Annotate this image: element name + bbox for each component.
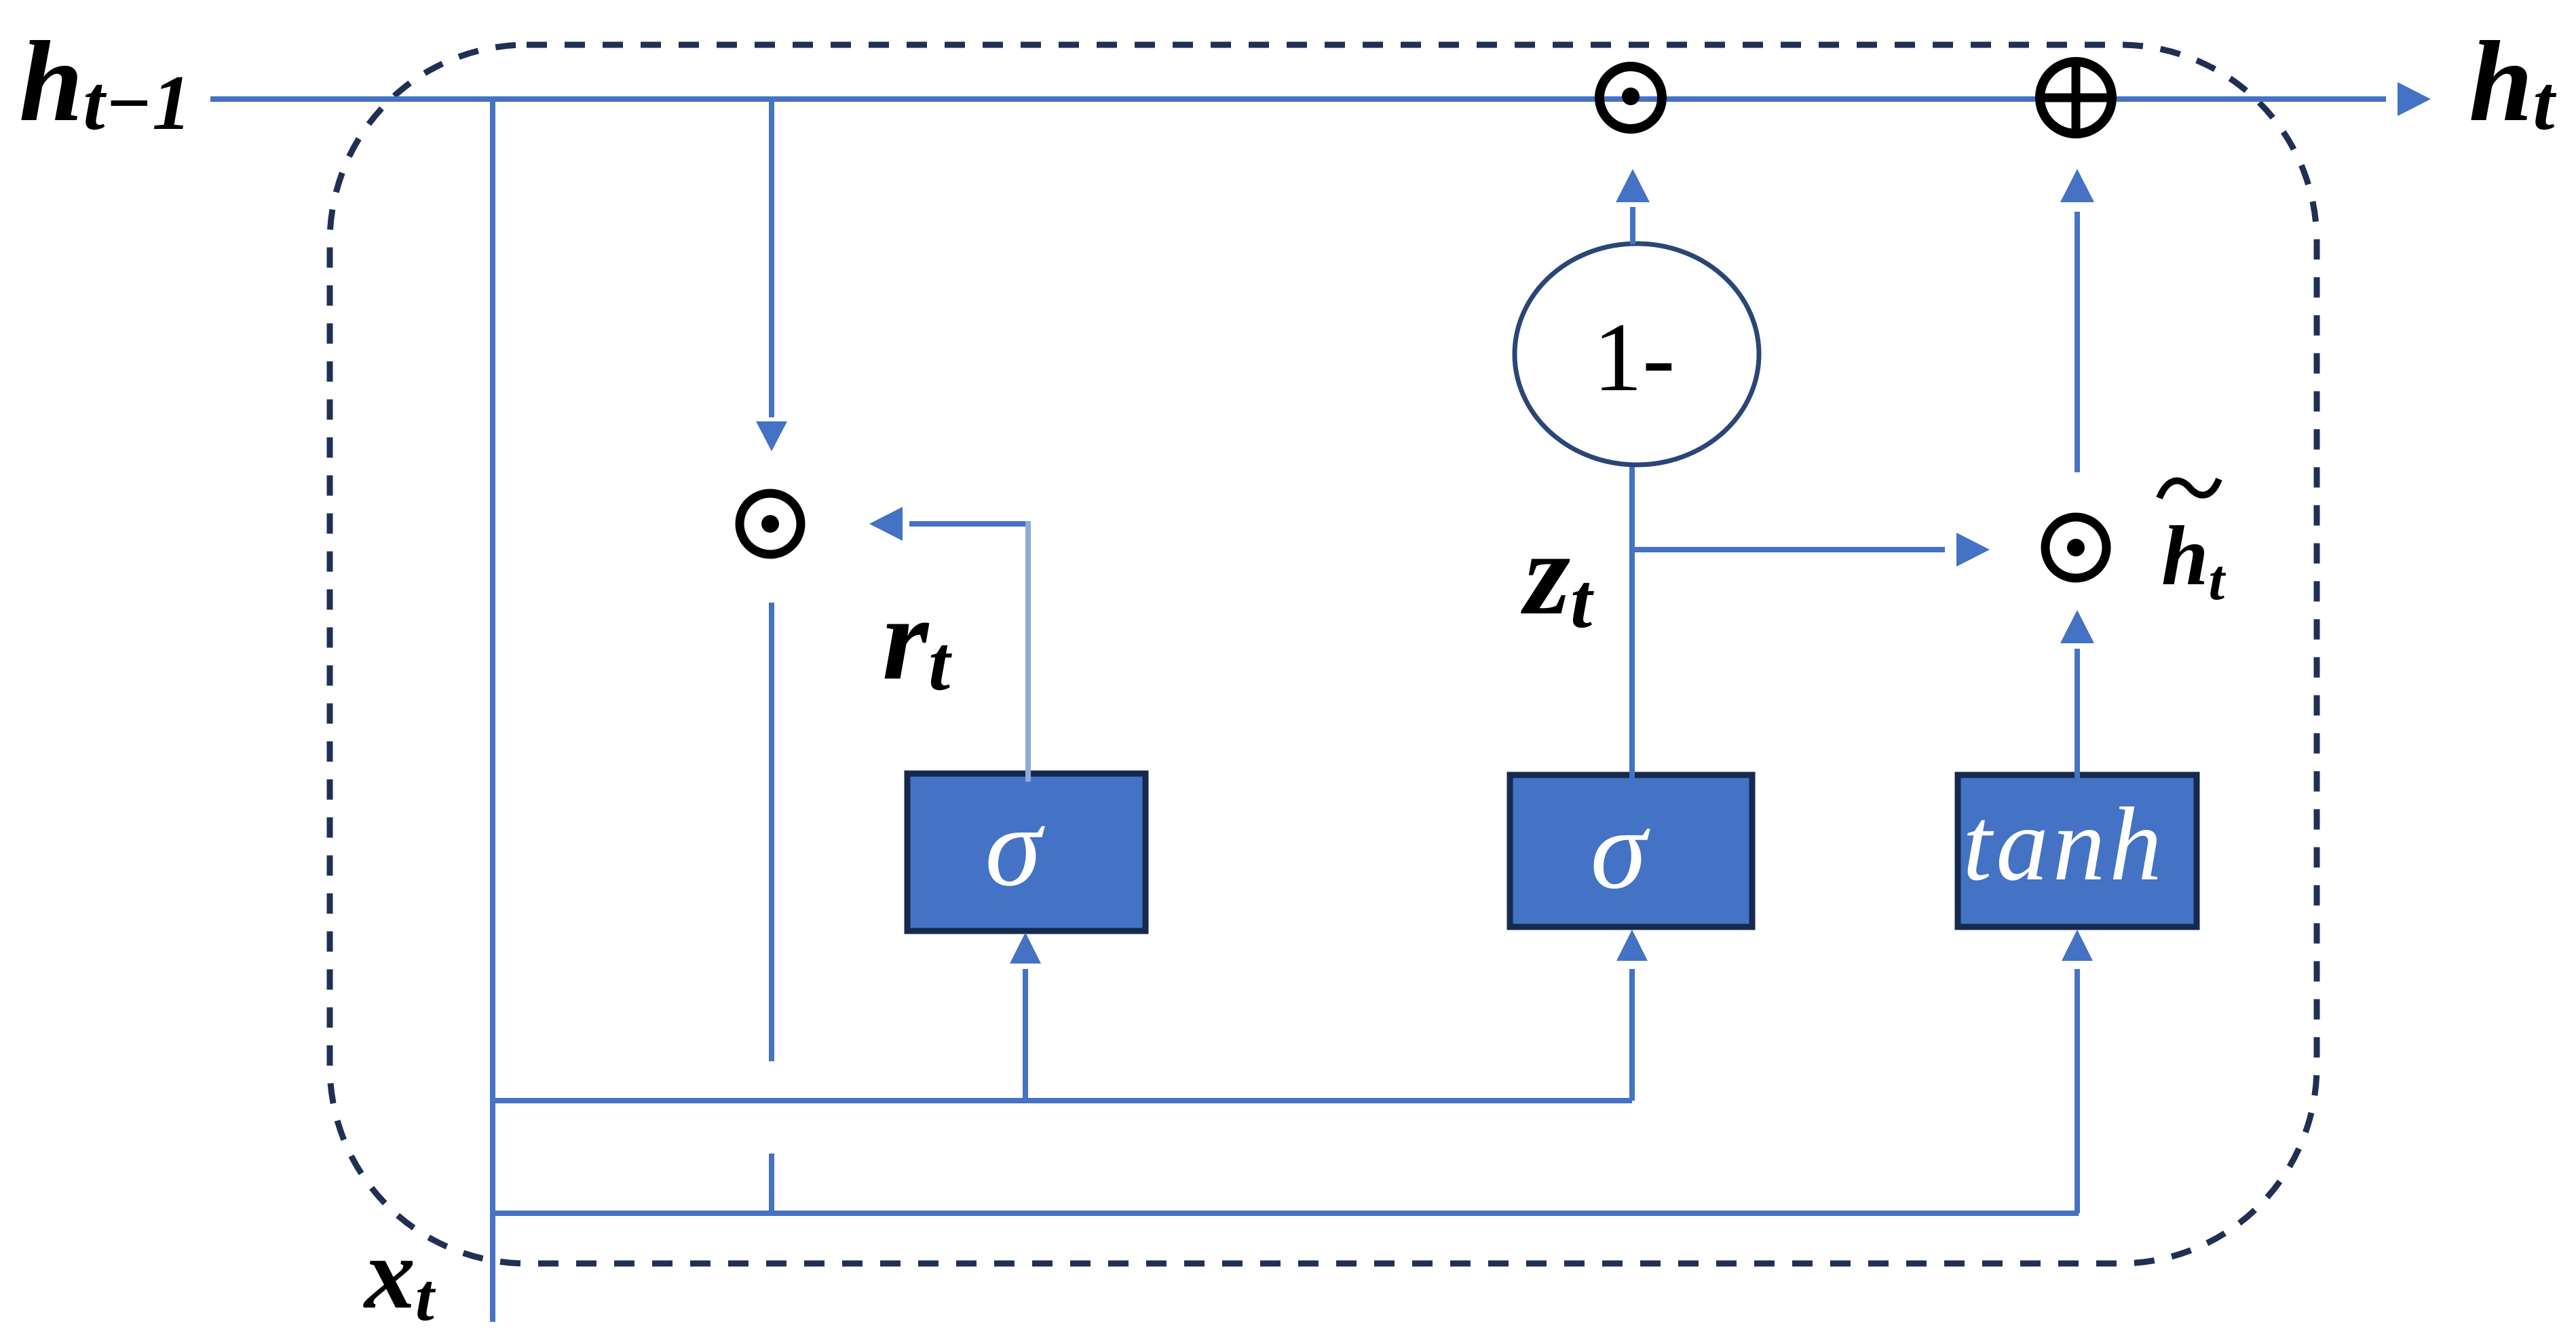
svg-text:rt: rt xyxy=(882,573,952,706)
circle 1-minus node xyxy=(1515,244,1759,465)
wire input arrow into sigma2 xyxy=(1616,930,1648,1101)
wire input arrow into sigma1 xyxy=(1010,932,1041,1101)
tanh box U3 xyxy=(1958,775,2197,927)
wire x_t vertical input xyxy=(490,99,495,1322)
oplus add node on top line xyxy=(2040,62,2112,134)
wire candidate odot up to oplus xyxy=(2060,169,2094,472)
wire bottom line 1 xyxy=(493,1098,1632,1103)
sigma box U2 (update gate) xyxy=(1510,775,1752,927)
wire below reset odot xyxy=(769,603,774,1061)
wire tanh up to candidate odot xyxy=(2060,610,2094,780)
wire z_t up from sigma2 to 1- circle xyxy=(1629,464,1635,780)
wire r_t vertical from sigma1 (light blue) xyxy=(1025,521,1031,782)
svg-text:ht−1: ht−1 xyxy=(19,18,191,146)
wire input arrow into tanh xyxy=(2062,930,2093,1213)
svg-text:σ: σ xyxy=(1591,786,1651,913)
odot update gate on top line xyxy=(1599,66,1662,129)
svg-text:ht: ht xyxy=(2469,18,2557,146)
GRU cell dashed boundary xyxy=(330,45,2317,1263)
wire h(t-1) to h(t) top line xyxy=(210,82,2431,116)
wire jump segment to bottom line 2 xyxy=(769,1154,774,1216)
svg-text:σ: σ xyxy=(985,784,1046,910)
svg-text:tanh: tanh xyxy=(1963,786,2166,902)
wire z_t branch arrow to candidate odot xyxy=(1632,533,1990,567)
svg-text:zt: zt xyxy=(1521,508,1594,644)
wire bottom line 2 xyxy=(493,1211,2079,1216)
svg-text:1-: 1- xyxy=(1593,303,1675,412)
label h-tilde_t xyxy=(2159,479,2227,612)
wire r_t arrow into reset odot xyxy=(869,507,1028,541)
odot candidate gate xyxy=(2045,517,2106,578)
wire arrow from 1- circle up to top odot xyxy=(1616,169,1650,244)
odot reset gate xyxy=(740,493,801,554)
wire down from top line to reset odot xyxy=(756,99,787,451)
svg-text:ht: ht xyxy=(2161,510,2227,612)
sigma box U1 (reset gate) xyxy=(907,774,1145,931)
svg-text:xt: xt xyxy=(363,1217,436,1332)
